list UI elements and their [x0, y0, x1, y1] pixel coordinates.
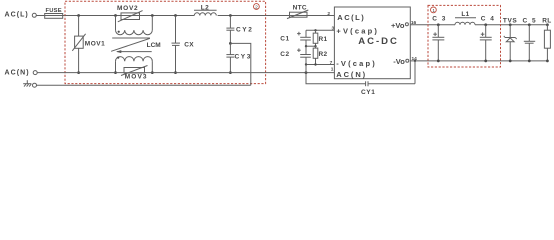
varistor MOV1: [72, 16, 105, 73]
svg-text:RL: RL: [542, 18, 551, 25]
junction top of MOV1: [77, 14, 80, 17]
svg-text:MOV2: MOV2: [117, 5, 138, 12]
red dashed box 2 (EMI filter): [65, 1, 266, 83]
pin 16 +Vo rail: [410, 20, 547, 26]
wire ground rail: [37, 84, 251, 86]
red dashed box 1 (output filter): [428, 5, 501, 67]
svg-text:C 5: C 5: [523, 18, 538, 25]
capacitor CY3: [226, 43, 252, 74]
common-mode choke LCM bottom winding: [114, 57, 154, 75]
NTC thermistor: [287, 4, 308, 18]
svg-text:2: 2: [255, 5, 258, 11]
AC-DC module U1: [334, 7, 410, 79]
svg-text:C2: C2: [280, 51, 290, 58]
svg-text:+V(cap): +V(cap): [336, 27, 379, 36]
svg-text:C1: C1: [280, 36, 290, 43]
svg-text:MOV1: MOV1: [85, 41, 105, 48]
svg-text:LCM: LCM: [147, 42, 161, 49]
svg-text:NTC: NTC: [293, 4, 307, 11]
svg-text:C 4: C 4: [481, 16, 496, 23]
capacitor CX: [172, 14, 195, 74]
svg-text:AC(N): AC(N): [5, 69, 30, 76]
diode TVS: [503, 18, 518, 63]
svg-text:16: 16: [411, 20, 417, 26]
wire L from terminal to fuse: [36, 15, 45, 17]
resistor R1: [313, 30, 327, 46]
marker circled 2: [254, 4, 260, 11]
svg-text:R1: R1: [319, 36, 328, 43]
wire CY1 branch from N rail: [305, 65, 366, 84]
svg-text:-V(cap): -V(cap): [336, 59, 377, 68]
junction bottom of MOV1: [77, 71, 80, 74]
svg-text:MOV3: MOV3: [125, 74, 148, 81]
pin 14 -Vo rail: [410, 56, 547, 62]
svg-text:CY2: CY2: [236, 27, 253, 34]
wire N main rail: [37, 72, 334, 74]
ground symbol: [23, 80, 31, 86]
svg-text:AC(L): AC(L): [337, 13, 365, 22]
svg-text:TVS: TVS: [503, 18, 518, 25]
choke core lines and LCM label: [111, 38, 161, 53]
svg-text:CX: CX: [184, 42, 194, 49]
svg-text:1: 1: [331, 66, 334, 72]
wire top main L rail: [65, 15, 194, 17]
terminal ground: [33, 83, 37, 87]
terminal AC(N): [33, 71, 37, 75]
resistor R2: [313, 46, 327, 64]
inductor L2: [194, 5, 217, 16]
svg-text:-Vo: -Vo: [393, 57, 405, 66]
varistor MOV2: [117, 5, 143, 22]
marker circled 1: [431, 7, 437, 14]
capacitor C3: [432, 16, 447, 63]
mid node C1C2: [305, 45, 317, 47]
common-mode choke LCM top winding: [114, 14, 154, 35]
svg-text:1: 1: [432, 8, 435, 14]
inductor L1: [455, 11, 476, 25]
svg-text:C 3: C 3: [432, 16, 447, 23]
svg-text:R2: R2: [319, 51, 328, 58]
capacitor CY1: [361, 61, 415, 96]
svg-text:+Vo: +Vo: [391, 21, 405, 30]
fuse FUSE: [45, 8, 65, 18]
capacitor C4: [480, 16, 496, 63]
svg-text:AC(L): AC(L): [5, 12, 29, 19]
resistor RL: [542, 18, 551, 63]
-V(cap) node line, pin 7: [305, 60, 335, 66]
svg-text:L1: L1: [461, 11, 469, 18]
svg-text:AC-DC: AC-DC: [358, 36, 399, 47]
capacitor C1: [280, 30, 311, 46]
capacitor C5: [523, 18, 538, 63]
svg-text:7: 7: [330, 60, 333, 66]
capacitor C2: [280, 46, 311, 64]
svg-text:2: 2: [327, 11, 330, 17]
capacitor CY2: [226, 14, 253, 43]
svg-text:CY1: CY1: [361, 89, 375, 96]
terminal AC(L): [32, 13, 36, 17]
node CY midpoint to ground: [229, 42, 251, 85]
svg-text:FUSE: FUSE: [46, 8, 62, 14]
varistor MOV3: [121, 66, 148, 81]
svg-text:AC(N): AC(N): [336, 70, 367, 79]
+V(cap) node line, pin 3: [306, 26, 335, 32]
svg-text:CY3: CY3: [235, 54, 252, 61]
